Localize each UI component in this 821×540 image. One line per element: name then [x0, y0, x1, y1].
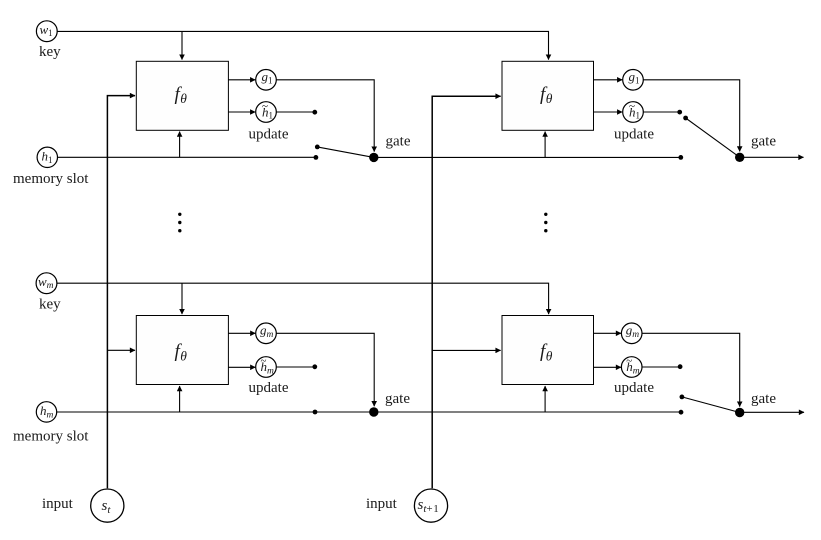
node htilde1 circle left — [256, 100, 277, 122]
svg-text:gate: gate — [385, 391, 410, 407]
wire update line htildemR to dot — [642, 366, 680, 368]
node dot on memory line row3 left — [313, 410, 318, 415]
svg-text:~: ~ — [261, 355, 267, 367]
node h1 memory slot circle — [37, 147, 57, 167]
wire gmR to gate R2 — [642, 333, 740, 406]
node update end dot L1 — [312, 110, 317, 115]
wire box3 to gm arrow — [228, 332, 255, 334]
svg-text:memory slot: memory slot — [13, 171, 89, 187]
wire s_t+1 input stem into box2 left — [432, 96, 500, 488]
svg-text:memory slot: memory slot — [13, 429, 89, 445]
svg-text:update: update — [614, 127, 654, 143]
node htilde1 circle right — [623, 100, 644, 122]
wire gate R1 output arrow — [740, 156, 804, 158]
node gate dot R2 — [735, 408, 744, 417]
node gm circle right — [621, 323, 642, 344]
node update end dot R1 — [677, 110, 682, 115]
box f_theta 3 (bottom left) — [136, 316, 228, 385]
svg-text:gate: gate — [751, 134, 776, 150]
node htildem circle left — [256, 355, 277, 377]
node switch contact dot gate L1 — [315, 145, 320, 150]
wire branch up into box2 bottom — [544, 132, 546, 158]
wire memory slot line row3 hm across both gates — [57, 411, 681, 413]
node g1 circle left — [256, 69, 277, 90]
svg-text:~: ~ — [626, 355, 632, 367]
ellipsis left — [178, 213, 181, 233]
node g1 circle right — [623, 69, 644, 90]
node s_t+1 input circle — [414, 489, 447, 522]
node update end dot L2 — [312, 364, 317, 369]
svg-text:~: ~ — [262, 100, 268, 112]
node htildem circle right — [621, 355, 642, 377]
svg-text:key: key — [39, 44, 61, 60]
svg-text:key: key — [39, 297, 61, 313]
wire g1 to gate L1 — [277, 80, 375, 152]
wire box2 to htilde1R arrow — [594, 111, 623, 113]
wire box4 to htildemR arrow — [594, 366, 622, 368]
node w1 key circle — [36, 21, 57, 42]
node end dot memory line row1 — [314, 155, 319, 160]
wire memory slot line row1 h1 to switch contact — [57, 156, 316, 158]
wire box1 to htilde1 arrow — [228, 111, 255, 113]
wire gate R2 output arrow — [740, 411, 804, 413]
node wm key circle — [36, 273, 57, 294]
node update end dot R2 — [678, 364, 683, 369]
node end dot memory line row3 right — [679, 410, 684, 415]
wire update line htildem to dot — [277, 366, 315, 368]
wire key1 branch into box1 top — [181, 31, 183, 59]
ellipsis right — [544, 213, 547, 233]
node switch contact dot gate R2 — [680, 395, 685, 400]
box f_theta 4 (bottom right) — [502, 316, 594, 385]
wire box4 to gmR arrow — [594, 332, 622, 334]
svg-text:update: update — [614, 380, 654, 396]
node hm memory slot circle — [36, 402, 56, 422]
wire box3 to htildem arrow — [228, 366, 255, 368]
svg-text:update: update — [249, 380, 289, 396]
wire s_t+1 branch into box4 left — [432, 349, 500, 351]
wire branch up into box4 bottom — [544, 386, 546, 412]
wire update line htilde1 to dot — [277, 111, 315, 113]
node gate dot R1 — [735, 153, 744, 162]
wire key3 branch into box3 top — [181, 283, 183, 314]
wire s_t input stem into box1 left — [107, 96, 135, 489]
svg-text:gate: gate — [386, 134, 411, 150]
wire key line row3 from wm to box4 top — [57, 283, 549, 314]
node end dot memory line row1 right — [678, 155, 683, 160]
wire gm to gate L2 — [277, 333, 375, 406]
node switch contact dot gate R1 — [683, 116, 688, 121]
wire branch up into box3 bottom — [179, 386, 181, 412]
node gm circle left — [256, 323, 277, 344]
wire switch lever gate R1 — [686, 118, 740, 157]
wire key line row1 from w1 to box2 top — [57, 31, 548, 59]
svg-text:input: input — [366, 496, 398, 512]
wire g1R to gate R1 — [644, 80, 740, 152]
wire switch lever gate L1 — [317, 147, 374, 158]
wire gate L1 to gate R1 memory line — [374, 156, 681, 158]
wire update line htilde1R to dot — [644, 111, 680, 113]
svg-text:gate: gate — [751, 391, 776, 407]
wire box1 to g1 arrow — [228, 79, 255, 81]
svg-text:input: input — [42, 496, 74, 512]
wire box2 to g1R arrow — [594, 79, 623, 81]
node s_t input circle — [91, 489, 124, 522]
svg-text:update: update — [249, 127, 289, 143]
svg-text:~: ~ — [629, 100, 635, 112]
node gate dot L2 — [369, 407, 378, 416]
node gate dot L1 — [369, 153, 378, 162]
wire switch lever gate R2 — [682, 397, 740, 413]
box f_theta 2 (top right) — [502, 61, 594, 130]
wire s_t branch into box3 left — [107, 349, 135, 351]
wire branch up into box1 bottom — [179, 132, 181, 158]
box f_theta 1 (top left) — [136, 61, 228, 130]
